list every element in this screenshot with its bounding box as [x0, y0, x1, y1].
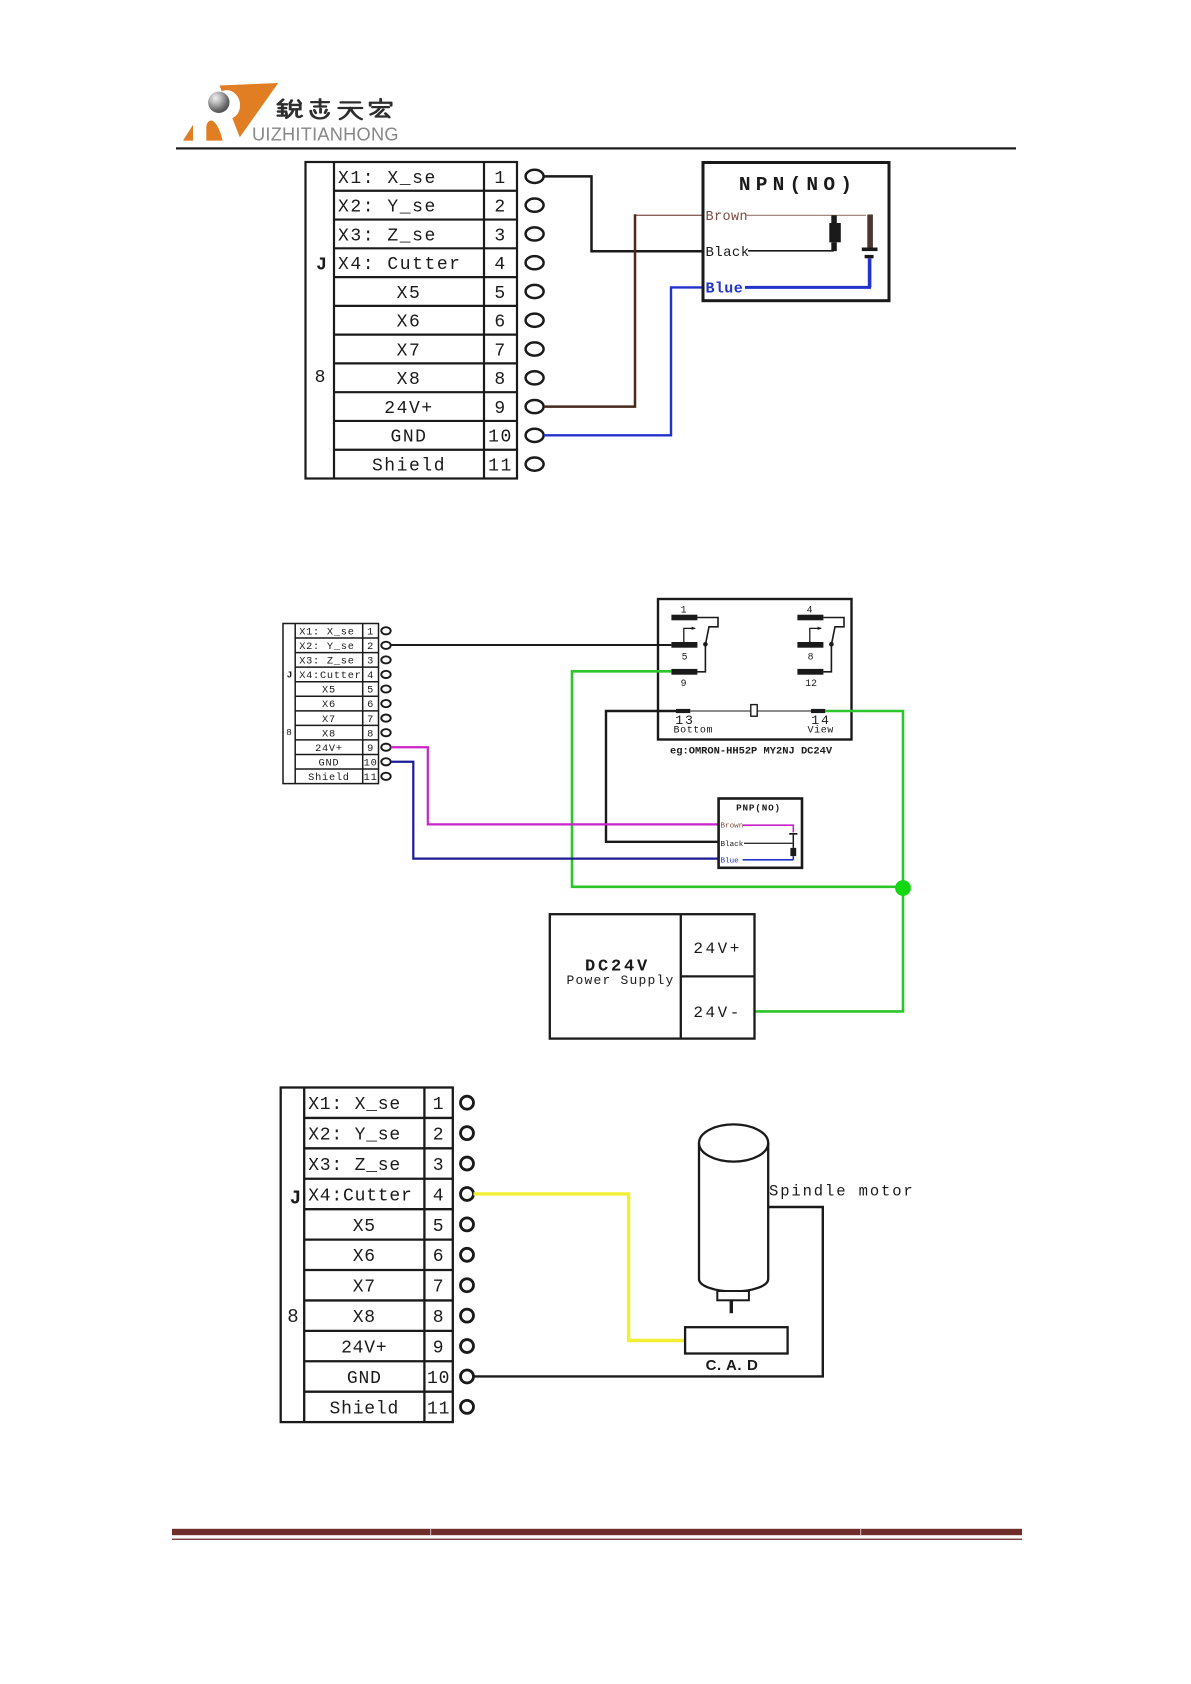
svg-text:GND: GND	[319, 757, 340, 769]
svg-text:5: 5	[682, 652, 688, 663]
svg-text:X6: X6	[322, 699, 336, 711]
svg-text:X7: X7	[353, 1278, 376, 1298]
svg-text:6: 6	[494, 313, 506, 333]
svg-text:X5: X5	[353, 1217, 376, 1237]
svg-text:X4:Cutter: X4:Cutter	[299, 670, 361, 682]
svg-text:Power Supply: Power Supply	[566, 973, 674, 988]
svg-text:X1: X_se: X1: X_se	[308, 1095, 401, 1115]
svg-text:2: 2	[367, 641, 374, 653]
svg-text:2: 2	[494, 198, 506, 218]
svg-text:6: 6	[367, 699, 374, 711]
svg-text:10: 10	[427, 1369, 450, 1389]
svg-text:X5: X5	[397, 284, 422, 304]
svg-text:2: 2	[433, 1126, 445, 1146]
svg-text:4: 4	[807, 605, 813, 616]
svg-text:8: 8	[808, 652, 814, 663]
svg-text:6: 6	[433, 1247, 445, 1267]
svg-text:X4:Cutter: X4:Cutter	[308, 1186, 412, 1206]
svg-text:4: 4	[367, 670, 374, 682]
svg-text:1: 1	[494, 169, 506, 189]
svg-text:X1: X_se: X1: X_se	[338, 169, 437, 189]
svg-text:X5: X5	[322, 685, 336, 697]
svg-text:J: J	[290, 1188, 301, 1210]
svg-text:24V+: 24V+	[693, 940, 741, 958]
svg-text:C. A. D: C. A. D	[706, 1357, 759, 1374]
svg-text:1: 1	[681, 605, 687, 616]
svg-text:J: J	[287, 670, 293, 681]
svg-text:9: 9	[681, 678, 687, 689]
svg-text:X1: X_se: X1: X_se	[299, 626, 354, 638]
svg-text:4: 4	[494, 255, 506, 275]
svg-text:7: 7	[367, 714, 374, 726]
svg-text:UIZHITIANHONG: UIZHITIANHONG	[252, 125, 399, 145]
svg-text:3: 3	[433, 1156, 445, 1176]
svg-text:1: 1	[367, 626, 374, 638]
svg-text:1: 1	[433, 1095, 445, 1115]
svg-text:8: 8	[433, 1308, 445, 1328]
svg-text:8: 8	[287, 1306, 298, 1328]
svg-text:J: J	[316, 256, 327, 276]
svg-text:24V-: 24V-	[693, 1004, 741, 1022]
svg-text:10: 10	[364, 757, 378, 769]
svg-text:NPN(NO): NPN(NO)	[739, 174, 857, 196]
svg-text:8: 8	[494, 370, 506, 390]
svg-text:Shield: Shield	[329, 1399, 399, 1419]
svg-text:X2: Y_se: X2: Y_se	[338, 198, 437, 218]
svg-text:Black: Black	[706, 245, 750, 261]
svg-text:GND: GND	[347, 1369, 382, 1389]
svg-text:11: 11	[364, 772, 378, 784]
svg-text:Blue: Blue	[721, 857, 740, 865]
svg-text:9: 9	[494, 399, 506, 419]
svg-text:Spindle motor: Spindle motor	[769, 1183, 915, 1201]
svg-text:X4: Cutter: X4: Cutter	[338, 255, 462, 275]
svg-text:Blue: Blue	[706, 281, 744, 298]
svg-text:X6: X6	[353, 1247, 376, 1267]
svg-text:11: 11	[488, 457, 513, 477]
svg-text:8: 8	[367, 728, 374, 740]
svg-text:X8: X8	[322, 728, 336, 740]
svg-text:X6: X6	[397, 313, 422, 333]
svg-text:8: 8	[315, 368, 326, 388]
svg-text:View: View	[808, 725, 834, 737]
svg-text:3: 3	[367, 656, 374, 668]
svg-text:5: 5	[433, 1217, 445, 1237]
svg-text:12: 12	[805, 678, 817, 689]
svg-text:Black: Black	[721, 841, 744, 849]
svg-text:X8: X8	[397, 370, 422, 390]
svg-text:10: 10	[488, 428, 513, 448]
svg-text:Bottom: Bottom	[674, 726, 714, 737]
svg-text:5: 5	[367, 685, 374, 697]
svg-text:X2: Y_se: X2: Y_se	[299, 641, 354, 653]
svg-text:7: 7	[494, 341, 506, 361]
svg-text:9: 9	[433, 1338, 445, 1358]
svg-text:Brown: Brown	[721, 823, 744, 831]
svg-text:eg:OMRON-HH52P MY2NJ DC24V: eg:OMRON-HH52P MY2NJ DC24V	[670, 746, 833, 758]
svg-text:X3: Z_se: X3: Z_se	[338, 226, 437, 246]
svg-text:24V+: 24V+	[384, 399, 433, 419]
svg-text:7: 7	[433, 1278, 445, 1298]
svg-text:5: 5	[494, 284, 506, 304]
svg-text:Shield: Shield	[372, 457, 446, 477]
svg-text:X7: X7	[322, 714, 336, 726]
svg-text:24V+: 24V+	[341, 1338, 387, 1358]
svg-text:24V+: 24V+	[315, 743, 343, 755]
svg-text:X2: Y_se: X2: Y_se	[308, 1126, 401, 1146]
svg-text:X8: X8	[353, 1308, 376, 1328]
svg-text:Shield: Shield	[308, 772, 350, 784]
svg-text:4: 4	[433, 1186, 445, 1206]
svg-text:GND: GND	[390, 428, 427, 448]
svg-text:9: 9	[367, 743, 374, 755]
svg-text:Brown: Brown	[706, 210, 749, 225]
svg-text:8: 8	[286, 727, 292, 738]
svg-text:X3: Z_se: X3: Z_se	[308, 1156, 401, 1176]
svg-text:3: 3	[494, 226, 506, 246]
svg-text:PNP(NO): PNP(NO)	[736, 803, 781, 814]
svg-text:11: 11	[427, 1399, 450, 1419]
svg-text:X3: Z_se: X3: Z_se	[299, 656, 354, 668]
svg-text:X7: X7	[397, 341, 422, 361]
